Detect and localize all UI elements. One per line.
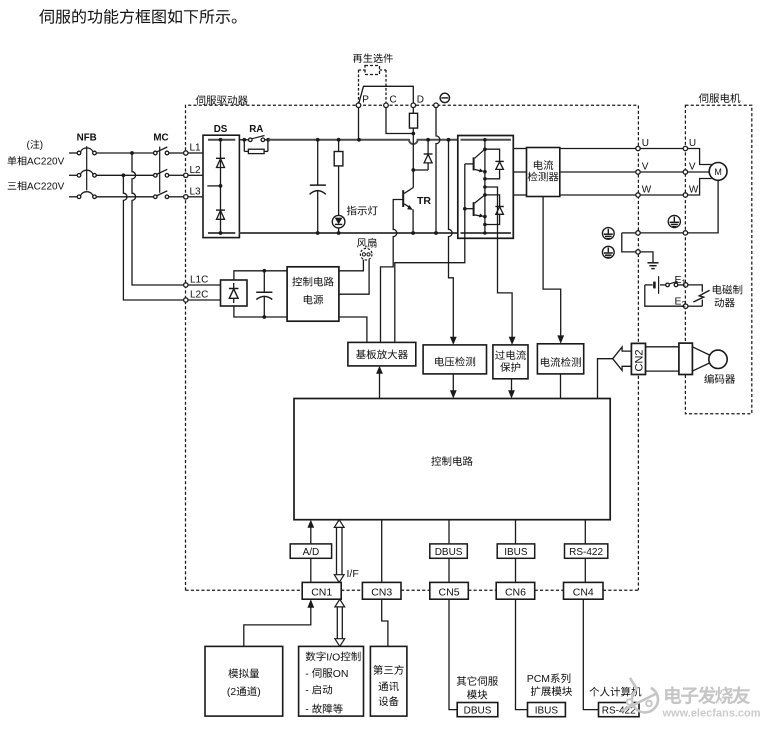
encoder circle [709, 350, 727, 368]
jumper blade P to D [359, 86, 414, 103]
junction dot on L1 for control power tap [130, 151, 134, 155]
svg-text:L2C: L2C [190, 290, 208, 301]
terminal P [356, 103, 361, 108]
label 控制电路 [431, 456, 472, 466]
connector CN1 box [302, 582, 341, 599]
digital IO box 数字I/O控制 [299, 646, 364, 716]
wire inverter to current detector phase W [513, 194, 526, 196]
label 电磁制动器 [713, 285, 742, 295]
svg-text:D: D [417, 95, 424, 106]
wire inverter to current detector phase V [513, 171, 526, 173]
wire NFB to MC row 1 [96, 152, 153, 154]
wire L3 input row [69, 196, 77, 198]
diode freewheel lower [485, 195, 500, 206]
wire control to CN3 [381, 520, 383, 583]
wire E2 to brake [688, 305, 702, 307]
junction dot RA left [242, 138, 246, 142]
DS junction dots [219, 138, 223, 142]
svg-text:E: E [675, 295, 682, 307]
svg-text:U: U [642, 138, 649, 149]
wire DC bus negative [239, 232, 457, 234]
wire bleeder to LED [338, 166, 340, 216]
inverter bottom rail [461, 232, 511, 234]
relay contact RA [249, 138, 253, 142]
terminal E2 [684, 304, 688, 308]
I/F hollow arrow down [334, 575, 344, 583]
wire C down and over to D line [386, 108, 413, 134]
svg-text:(2: (2 [227, 686, 236, 698]
inverter top rail [461, 139, 511, 141]
label 三相AC220V [8, 181, 27, 190]
connector CN6 box [496, 582, 535, 599]
arrowhead up into control [307, 520, 314, 528]
svg-text:AC220V: AC220V [27, 182, 65, 193]
wire RA right [265, 139, 272, 141]
gate tie wire [464, 164, 466, 209]
DS mid stub wire [207, 185, 220, 187]
svg-text:NFB: NFB [77, 133, 97, 144]
svg-text:CN1: CN1 [311, 586, 332, 598]
terminal circle ground motor edge [683, 231, 687, 235]
label 第三方通讯设备 [373, 665, 403, 675]
bus junction dots [316, 138, 320, 142]
wire phase V to motor [560, 171, 636, 173]
arrowhead into 电压检测 [450, 337, 457, 345]
wire L2 input row [69, 174, 77, 176]
svg-text:-: - [305, 685, 309, 697]
svg-text:L1C: L1C [190, 275, 208, 286]
RS-422 box [565, 544, 608, 558]
connector CN5 box [430, 582, 469, 599]
terminal circle ground driver edge lower [636, 250, 640, 254]
connector CN3 box [362, 582, 401, 599]
svg-text:M: M [714, 167, 722, 177]
svg-text:IBUS: IBUS [535, 706, 559, 717]
regen option dashed wires [359, 69, 366, 71]
wire phase tap to overcurrent protection [485, 187, 512, 338]
wire to earth ground [640, 252, 653, 263]
wire voltage detection to control [452, 374, 454, 391]
contactor MC pole 2 [154, 174, 158, 178]
wire W into motor [688, 179, 712, 196]
wire D upper [412, 108, 414, 114]
svg-text:I/F: I/F [347, 568, 359, 580]
encoder taper wires [692, 347, 710, 356]
wire RS-422 to CN4 [584, 558, 586, 582]
wire terminal to DS row 2 [188, 174, 203, 176]
earth ground symbol [648, 262, 659, 264]
wire MC to terminal row 3 [169, 196, 184, 198]
resistor bleeder [338, 140, 340, 152]
arrowhead into 过电流保护 [509, 337, 516, 345]
label 控制电路电源 [292, 277, 333, 287]
label 伺服电机 [699, 93, 741, 103]
wire rectifier bottom loop [234, 306, 287, 317]
rectifier DS box [203, 135, 239, 237]
svg-text:W: W [689, 184, 699, 195]
terminal circle L2 on driver edge [184, 173, 188, 177]
resistor regen dump [409, 113, 417, 128]
wire terminal to DS row 1 [188, 152, 203, 154]
breaker NFB pole 3 [77, 195, 81, 199]
inverter node dots [483, 138, 487, 142]
wire node to TR collector [412, 170, 414, 188]
wire control to IBUS [515, 520, 517, 544]
DBUS box [430, 544, 468, 558]
wire NFB to MC row 3 [96, 196, 153, 198]
wire CN2 to control circuit [598, 359, 613, 399]
svg-text:ON: ON [333, 668, 349, 680]
wire control to RS-422 [584, 520, 586, 544]
wire control to DBUS [448, 520, 450, 544]
protective earth symbol upper left [602, 228, 614, 240]
wire MC to terminal row 1 [169, 152, 184, 154]
wire current detector to 电流检测 [543, 197, 561, 337]
wire gate drive to board amplifier [395, 209, 465, 343]
brake coil jag symbol [693, 290, 709, 302]
arrow hollow CN2 to control [613, 347, 632, 370]
label 风扇 [357, 238, 377, 248]
terminal circle ground driver edge upper [636, 231, 640, 235]
wire power to board amplifier [339, 317, 367, 342]
wire phase U to motor [560, 148, 636, 150]
wire L1C into rectifier [188, 284, 221, 286]
wire DS to RA [239, 139, 248, 141]
label 电流检测器 [534, 160, 553, 170]
svg-text:I/O: I/O [326, 651, 340, 663]
A/D box [290, 544, 331, 558]
contactor MC pole 1 [154, 151, 158, 155]
capacitor C1 DC link [317, 140, 319, 185]
label 数字I/O控制 [306, 651, 326, 661]
watermark text 电子发烧友 [665, 686, 750, 704]
connector CN4 box [564, 582, 604, 599]
motor M circle [709, 163, 727, 181]
LED indicator 指示灯 [332, 215, 345, 228]
terminal circle L3 on driver edge [184, 195, 188, 199]
svg-text:E: E [675, 274, 682, 286]
arrowhead into 电流检测 [557, 335, 564, 343]
wire terminal to DS row 3 [188, 196, 203, 198]
protective earth symbol motor [668, 215, 680, 227]
svg-text:DBUS: DBUS [464, 706, 492, 717]
minus symbol circle [440, 93, 449, 102]
capacitor control filter [262, 269, 266, 273]
wire fan right lead [339, 260, 369, 295]
control power box 控制电路电源 [287, 267, 339, 321]
wire minus terminal down to bus (hops positive bus) [436, 108, 440, 233]
wire TR base down to board amplifier (hops bus) [381, 200, 404, 343]
svg-text:DS: DS [214, 124, 228, 135]
overcurrent protection box 过电流保护 [493, 345, 528, 379]
svg-text:CN2: CN2 [633, 349, 645, 371]
protective earth symbol lower left [602, 246, 614, 258]
control circuit box 控制电路 [294, 399, 610, 520]
label 再生选件 [353, 53, 393, 62]
voltage detection box 电压检测 [423, 345, 486, 374]
arrow control to board amplifier [379, 373, 381, 399]
servo motor dashed box 伺服电机 [685, 105, 751, 414]
inverter center phase leg [484, 140, 486, 233]
wire NFB to MC row 2 [96, 174, 153, 176]
svg-text:L1: L1 [190, 143, 202, 154]
resistor RA parallel [243, 140, 245, 152]
svg-text:CN5: CN5 [439, 586, 460, 598]
hollow arrow down into digital IO box [335, 639, 345, 647]
svg-text:MC: MC [153, 133, 168, 144]
switch brake contact [666, 283, 670, 287]
MC mechanical tie line [159, 147, 161, 193]
wire phase W to motor [560, 194, 636, 196]
DS internal top rail [208, 139, 235, 141]
svg-text:www.elecfans.com: www.elecfans.com [662, 708, 761, 720]
wire P down to bus [358, 108, 360, 140]
label 基板放大器 [356, 350, 408, 360]
wire U into motor [688, 149, 712, 165]
label 模拟量 [228, 669, 259, 679]
wire analog input to CN1 [244, 608, 311, 647]
svg-text:W: W [642, 184, 652, 195]
label 其它伺服模块 [457, 676, 498, 686]
transistor TR [404, 188, 413, 194]
terminal D [411, 103, 416, 108]
diode in control rectifier [233, 283, 235, 288]
wire bus voltage tap to 电压检测 (hops negative bus) [449, 140, 454, 338]
svg-text:CN3: CN3 [371, 586, 392, 598]
third party box 第三方通讯设备 [370, 646, 407, 716]
svg-text:V: V [642, 161, 649, 172]
wire D through bus to TR collector node [412, 128, 414, 170]
DS internal center wire [220, 140, 222, 233]
breaker NFB pole 1 [77, 151, 81, 155]
label 指示灯 [347, 206, 378, 216]
terminal circle L1C on driver edge [184, 283, 188, 287]
wire L1 tap down to L1C (hops over L2 and L3) [132, 153, 184, 285]
svg-text:U: U [689, 138, 696, 149]
wire CN5 to external DBUS [449, 599, 457, 709]
wire control to A/D [310, 528, 312, 544]
servo driver dashed box 伺服驱动器 [186, 105, 639, 590]
svg-text:P: P [362, 95, 369, 106]
wire MC to terminal row 2 [169, 174, 184, 176]
I/F hollow arrow up [334, 520, 344, 528]
battery brake supply [645, 284, 653, 286]
diode freewheel upper [485, 149, 500, 161]
external IBUS box [528, 703, 566, 717]
watermark logo elecfans [622, 678, 658, 713]
title text 伺服的功能方框图如下所示。 [39, 9, 236, 24]
wire DC bus positive (hops under D line at x=413) [268, 140, 458, 144]
wire L2 tap down to L2C (hops over L3) [123, 175, 183, 300]
wire DBUS to CN5 [448, 558, 450, 582]
svg-text:1: 1 [682, 279, 687, 288]
wire overcurrent to control [511, 379, 513, 391]
svg-text:RA: RA [249, 124, 263, 135]
label 单相AC220V [8, 156, 27, 165]
DS diode lower [216, 209, 225, 211]
wire V into motor [688, 171, 710, 173]
label 电流检测 [541, 357, 581, 367]
svg-text:RS-422: RS-422 [569, 547, 603, 558]
board amplifier box 基板放大器 [348, 342, 416, 366]
label 个人计算机 [589, 687, 641, 697]
rectifier control power box [221, 280, 248, 306]
svg-text:2: 2 [682, 300, 687, 309]
svg-text:-: - [305, 668, 309, 680]
wire CN4 to external RS-422 [583, 599, 598, 709]
svg-text:): ) [40, 140, 43, 151]
analog box 模拟量(2通道) [205, 646, 283, 716]
DS internal bottom rail [208, 232, 235, 234]
junction dot diode-collector node [411, 168, 415, 172]
wire fan left lead [339, 260, 364, 271]
transistor IGBT upper [473, 157, 475, 170]
terminal circle L1 on driver edge [184, 151, 188, 155]
breaker NFB pole 2 [77, 174, 81, 178]
arrowhead up into CN1 [307, 599, 314, 608]
IBUS box [497, 544, 535, 558]
current detection box 电流检测 [537, 344, 583, 374]
svg-text:L2: L2 [190, 165, 202, 176]
wire current detection to control [560, 374, 562, 399]
terminal circle L2C on driver edge [184, 298, 188, 302]
NFB mechanical tie line [86, 146, 88, 190]
gate tie dot [463, 207, 467, 211]
svg-text:PCM: PCM [527, 673, 550, 685]
svg-text:L3: L3 [190, 186, 202, 197]
I/F double bus wires [336, 527, 338, 575]
regen option dashed resistor [365, 66, 380, 75]
wire bottom E2 loop [645, 285, 684, 306]
wire CN6 to external IBUS [516, 599, 528, 709]
wire motor frame ground [688, 180, 719, 233]
terminal minus [434, 103, 439, 108]
junction dot on D line [411, 132, 415, 136]
svg-text:-: - [305, 704, 309, 716]
I/F double bus CN1 to digital IO [336, 607, 338, 639]
arrowhead into control [450, 390, 457, 398]
junction dot RA right [266, 138, 270, 142]
wire L2C into rectifier [188, 299, 221, 301]
svg-text:CN4: CN4 [573, 586, 594, 598]
label 伺服驱动器 [196, 95, 248, 105]
external RS-422 box [599, 703, 640, 717]
wire contact to E1 [678, 284, 684, 286]
terminal E1 [684, 283, 688, 287]
label 编码器 [704, 374, 735, 384]
fan symbol 风扇 [360, 248, 372, 260]
dashed driver bottom edge segments [186, 589, 303, 591]
label 电压检测 [435, 357, 475, 367]
svg-text:DBUS: DBUS [435, 547, 463, 558]
wire ground bracket [622, 233, 636, 252]
wire A/D to CN1 [310, 558, 312, 582]
connector CN2 box [631, 343, 645, 374]
svg-text:CN6: CN6 [505, 586, 526, 598]
wire E1 to brake coil [688, 285, 702, 292]
wire inverter to current detector phase U [513, 148, 526, 150]
external DBUS box [457, 703, 498, 717]
encoder cable wires [646, 346, 679, 348]
svg-text:IBUS: IBUS [504, 547, 528, 558]
svg-text:V: V [689, 161, 696, 172]
svg-text:C: C [390, 95, 397, 106]
svg-text:TR: TR [417, 195, 431, 207]
label 过电流保护 [495, 350, 526, 360]
svg-text:AC220V: AC220V [27, 157, 65, 168]
encoder connector box [679, 343, 693, 374]
DS diode upper [216, 157, 225, 159]
terminal C [384, 103, 389, 108]
transistor IGBT lower [473, 202, 475, 216]
junction dot on L2 for control power tap [122, 173, 126, 177]
svg-text:): ) [257, 686, 261, 698]
contactor MC pole 3 [154, 195, 158, 199]
inverter module box [458, 136, 514, 239]
svg-text:A/D: A/D [303, 547, 320, 558]
wire CN3 to third party box [382, 599, 388, 646]
wire IBUS to CN6 [515, 558, 517, 582]
diode flyback across dump resistor path [427, 140, 429, 154]
hollow arrow up into CN1 bottom [335, 599, 345, 607]
wire rectifier top loop [234, 271, 287, 280]
arrowhead into control 2 [508, 390, 515, 398]
wire L1 input row [69, 152, 77, 154]
current detector box 电流检测器 [527, 148, 560, 197]
